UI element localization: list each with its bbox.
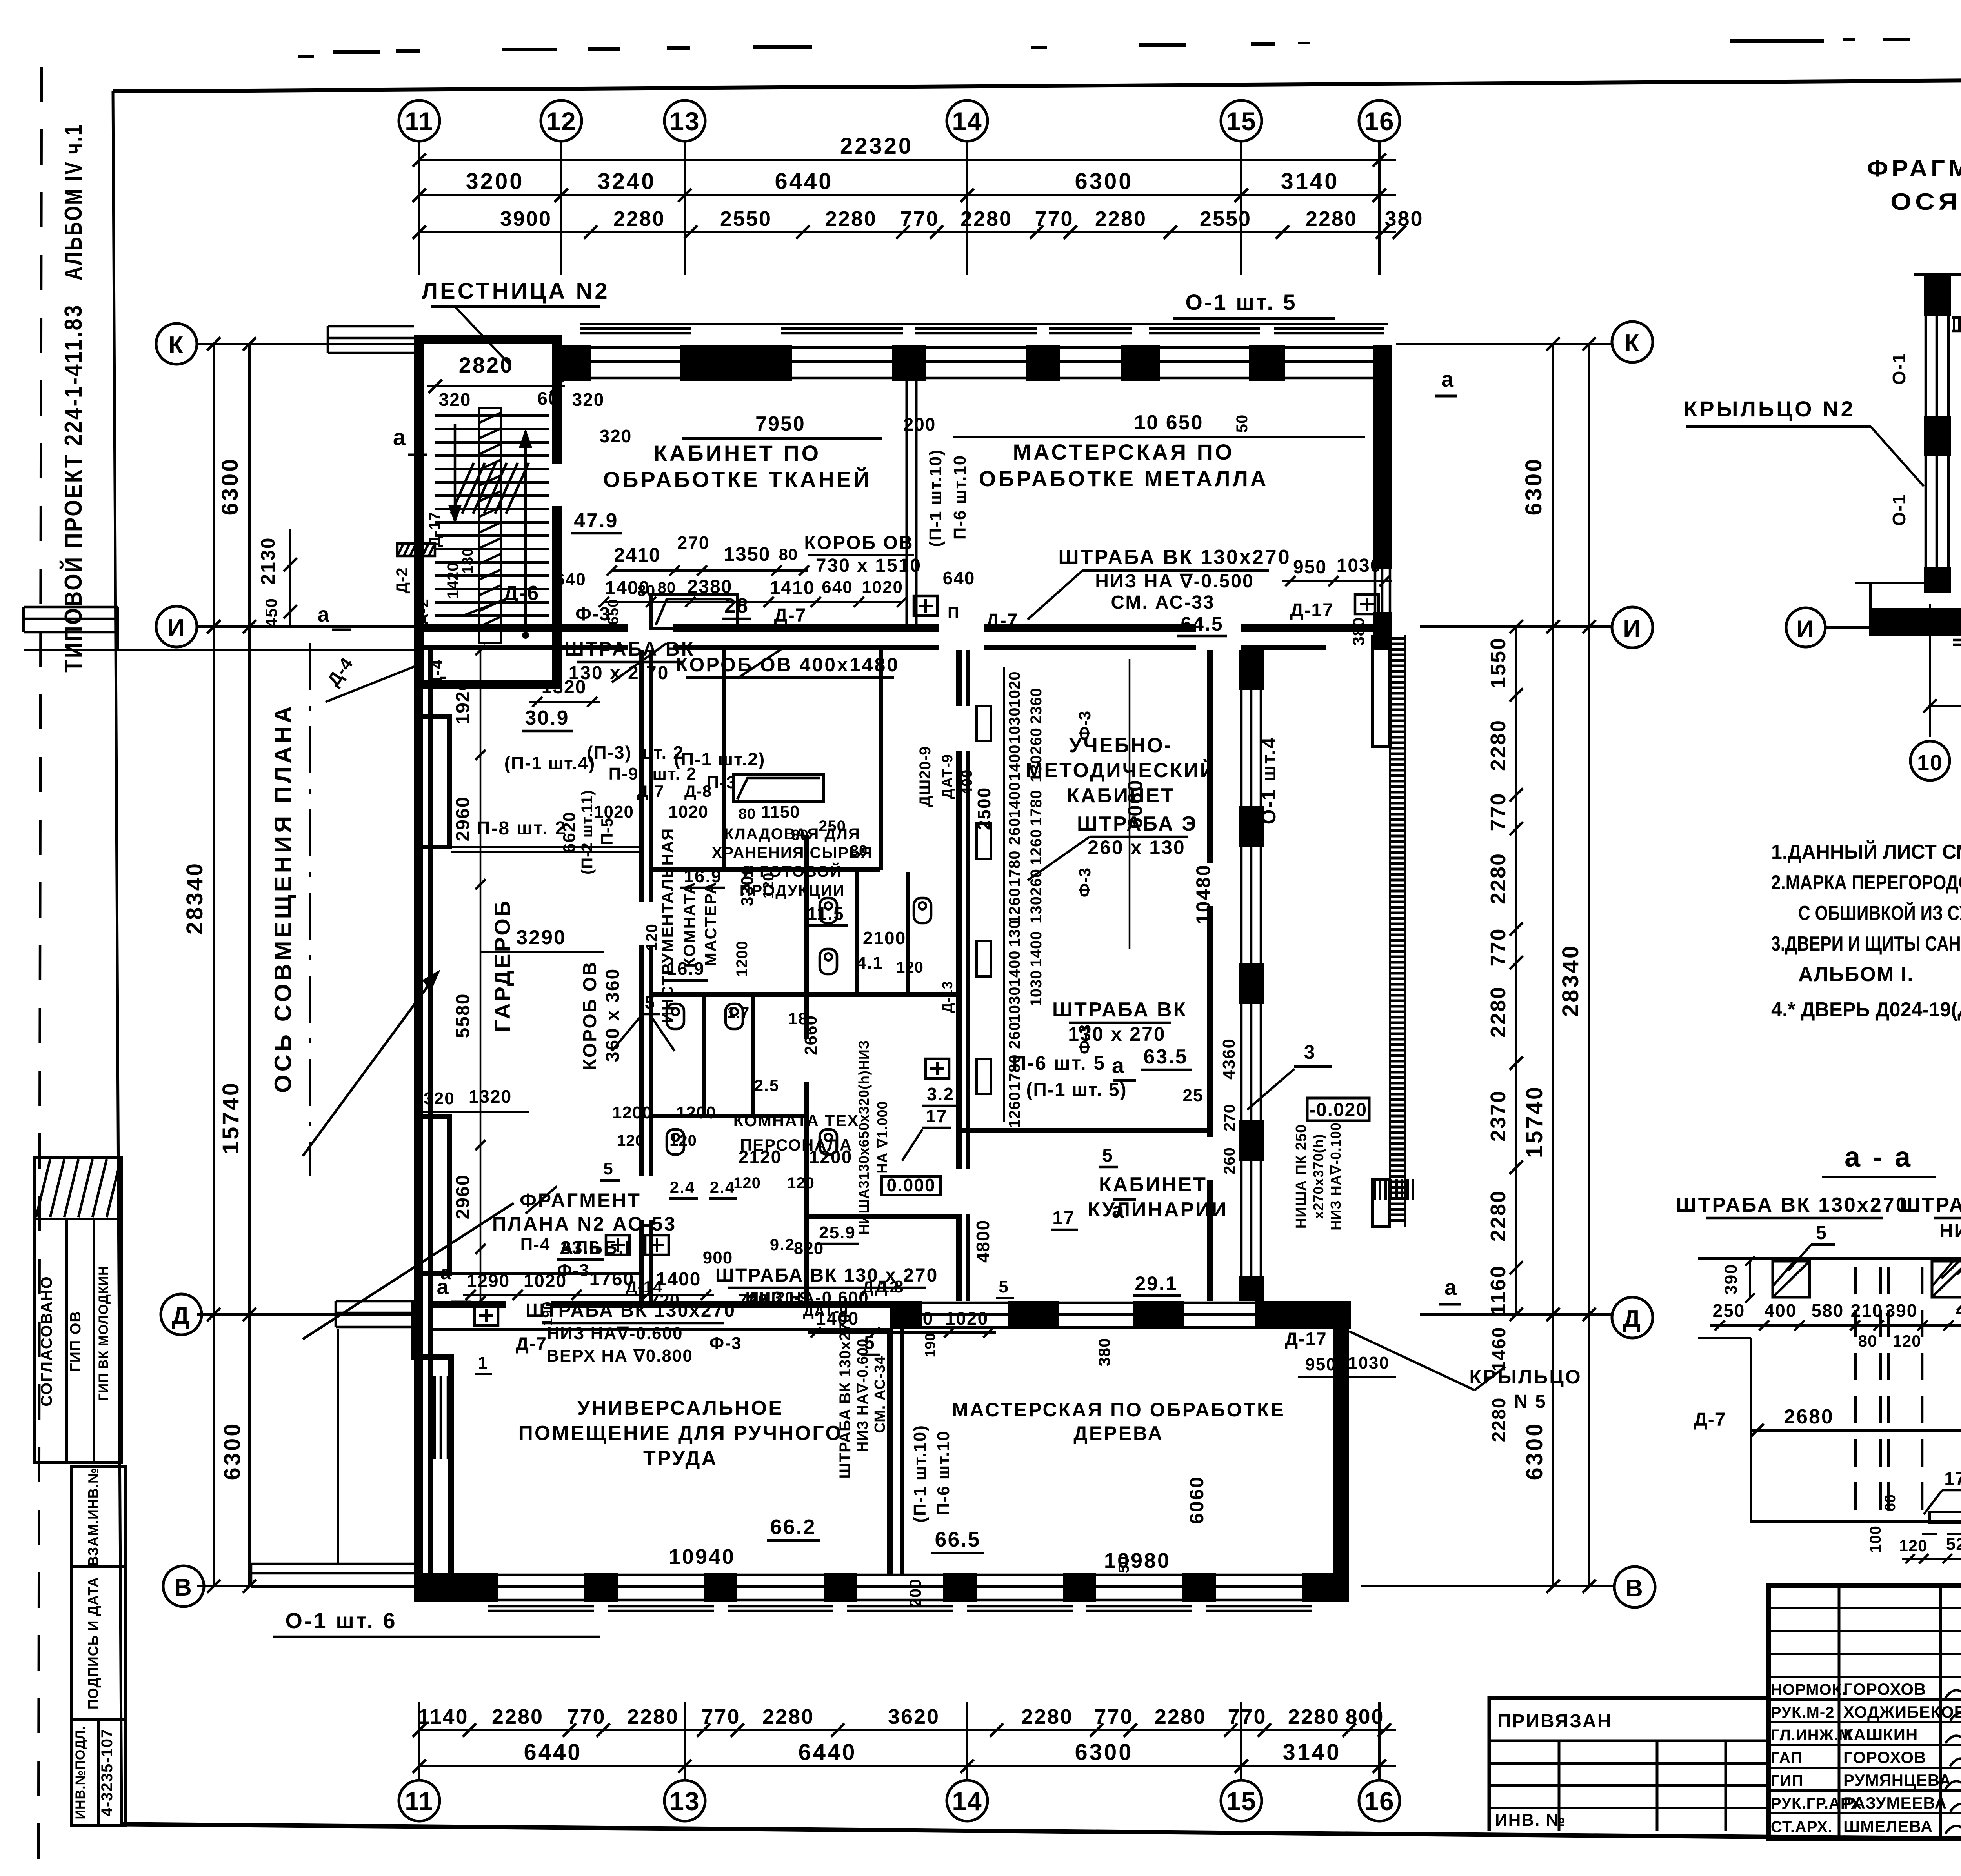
- svg-text:770: 770: [1486, 792, 1510, 831]
- svg-text:ГОРОХОВ: ГОРОХОВ: [1843, 1680, 1926, 1698]
- svg-text:130: 130: [1028, 755, 1045, 782]
- svg-text:1260: 1260: [1006, 1092, 1023, 1128]
- svg-text:6300: 6300: [220, 1422, 245, 1480]
- axis circles bottom row: [399, 1780, 440, 1821]
- svg-text:120: 120: [760, 873, 777, 898]
- svg-text:10480: 10480: [1192, 864, 1214, 924]
- section top line: [1698, 1257, 1961, 1260]
- svg-text:Д-7: Д-7: [516, 1333, 547, 1354]
- bottom dim line detailed: [419, 1729, 1396, 1731]
- svg-text:N 5: N 5: [1514, 1391, 1547, 1412]
- axis horizontal lines left: [197, 343, 414, 345]
- section niche left: [1773, 1261, 1810, 1297]
- svg-text:15740: 15740: [1522, 1085, 1547, 1158]
- svg-text:380: 380: [1349, 617, 1368, 645]
- right dim 6300 upper: [1552, 344, 1554, 627]
- partition between manual-labor room and wood workshop: [887, 1329, 893, 1576]
- svg-text:2280: 2280: [1486, 853, 1510, 904]
- porch left at И: [24, 606, 118, 609]
- svg-text:640: 640: [943, 568, 975, 588]
- svg-text:270: 270: [677, 533, 710, 553]
- svg-text:770: 770: [701, 1705, 740, 1729]
- svg-text:ТРУДА: ТРУДА: [643, 1447, 718, 1470]
- svg-text:3900: 3900: [500, 207, 552, 231]
- south exterior wall piers (В axis): [414, 1573, 498, 1602]
- svg-text:360 х 360: 360 х 360: [602, 968, 623, 1062]
- svg-text:НОРМОК.: НОРМОК.: [1771, 1681, 1846, 1698]
- svg-text:1410: 1410: [770, 578, 815, 598]
- svg-text:ИНВ.№ПОДЛ.: ИНВ.№ПОДЛ.: [73, 1726, 88, 1820]
- stair stringer: [479, 408, 501, 643]
- section left wall edge: [1750, 1338, 1752, 1523]
- svg-text:60: 60: [1882, 1494, 1899, 1511]
- svg-text:КАБИНЕТ: КАБИНЕТ: [1099, 1173, 1207, 1196]
- svg-text:770: 770: [1486, 927, 1510, 966]
- svg-text:1200: 1200: [676, 1103, 716, 1122]
- svg-text:770: 770: [1228, 1705, 1266, 1729]
- svg-text:6440: 6440: [775, 169, 833, 194]
- privyazan table: [1489, 1698, 1769, 1831]
- svg-text:КРЫЛЬЦО: КРЫЛЬЦО: [1469, 1366, 1582, 1388]
- svg-text:80: 80: [850, 843, 868, 859]
- svg-text:2960: 2960: [453, 796, 473, 842]
- svg-text:2.5: 2.5: [754, 1076, 779, 1094]
- svg-text:1020: 1020: [668, 802, 708, 822]
- svg-text:5: 5: [1102, 1145, 1114, 1166]
- svg-text:250: 250: [1713, 1300, 1745, 1321]
- svg-text:П-8 шт. 2: П-8 шт. 2: [477, 818, 567, 839]
- svg-text:4.1: 4.1: [857, 953, 883, 973]
- svg-text:2280: 2280: [1288, 1705, 1340, 1729]
- left dim vertical line outer 28340: [213, 344, 215, 1586]
- svg-text:1400: 1400: [1006, 745, 1023, 781]
- partition low: [653, 1114, 806, 1118]
- svg-text:(П-2 шт.11): (П-2 шт.11): [578, 790, 596, 874]
- svg-text:22320: 22320: [840, 133, 913, 159]
- axis circles top row: [399, 100, 440, 141]
- svg-text:63.5: 63.5: [1143, 1045, 1188, 1068]
- svg-text:320: 320: [572, 389, 605, 410]
- svg-text:120: 120: [1899, 1536, 1927, 1555]
- svg-text:НИЗ НА∇-0.600: НИЗ НА∇-0.600: [547, 1324, 683, 1343]
- east wall of metal workshop: [1373, 381, 1392, 569]
- svg-text:а: а: [1444, 1275, 1458, 1300]
- fragment left wall piers: [1924, 286, 1951, 316]
- svg-text:1200: 1200: [612, 1103, 652, 1122]
- svg-text:380: 380: [1384, 207, 1423, 231]
- svg-text:4800: 4800: [973, 1220, 993, 1263]
- bottom dim line axis spans: [419, 1765, 1396, 1767]
- svg-text:1290: 1290: [890, 1308, 933, 1329]
- svg-text:770: 770: [1094, 1705, 1133, 1729]
- svg-text:ПОМЕЩЕНИЕ ДЛЯ РУЧНОГО: ПОМЕЩЕНИЕ ДЛЯ РУЧНОГО: [518, 1422, 842, 1445]
- bottom wing north windows: [922, 1302, 1008, 1304]
- svg-text:ИНВ. №: ИНВ. №: [1495, 1811, 1566, 1830]
- axis circle И left: [156, 606, 197, 647]
- svg-text:ОСЯХ „10-11”.: ОСЯХ „10-11”.: [1890, 189, 1961, 215]
- svg-text:НИЗ НА ∇-0.500: НИЗ НА ∇-0.500: [1095, 571, 1254, 592]
- svg-text:10 650: 10 650: [1134, 411, 1203, 434]
- fragment dim 5700: [1930, 705, 1961, 707]
- svg-text:ФРАГМЕНТ ПЛАНА В: ФРАГМЕНТ ПЛАНА В: [1867, 155, 1961, 182]
- svg-text:ШТРАБА ВК 130х390: ШТРАБА ВК 130х390: [1899, 1194, 1961, 1216]
- svg-text:(П-3) шт. 2: (П-3) шт. 2: [587, 742, 684, 763]
- svg-text:ОБРАБОТКЕ ТКАНЕЙ: ОБРАБОТКЕ ТКАНЕЙ: [603, 467, 872, 492]
- door Д-17 threshold hatched (stair): [397, 544, 435, 556]
- svg-text:2.4: 2.4: [670, 1178, 695, 1196]
- fragment axis 10 line: [1929, 604, 1931, 737]
- svg-text:ЛЕСТНИЦА N2: ЛЕСТНИЦА N2: [422, 278, 609, 304]
- svg-text:К: К: [169, 332, 185, 359]
- svg-text:100: 100: [1867, 1525, 1884, 1553]
- svg-text:1200: 1200: [809, 1147, 852, 1167]
- svg-text:МЕТОДИЧЕСКИЙ: МЕТОДИЧЕСКИЙ: [1026, 759, 1216, 782]
- svg-text:Ф-3: Ф-3: [709, 1334, 742, 1353]
- svg-text:6300: 6300: [1522, 1422, 1547, 1480]
- svg-text:250: 250: [819, 818, 846, 835]
- svg-text:270: 270: [1221, 1104, 1238, 1131]
- svg-text:16: 16: [1364, 107, 1394, 136]
- east wall windows O-1: [1240, 690, 1243, 806]
- svg-text:ШТРАБА ВК 130х270: ШТРАБА ВК 130х270: [837, 1313, 854, 1478]
- svg-text:130 х 2.70: 130 х 2.70: [569, 663, 669, 684]
- svg-text:КРЫЛЬЦО N2: КРЫЛЬЦО N2: [1684, 396, 1855, 421]
- svg-text:2280: 2280: [613, 207, 665, 231]
- svg-text:320: 320: [453, 1583, 484, 1602]
- svg-text:190: 190: [1016, 1300, 1032, 1325]
- svg-text:ХРАНЕНИЯ СЫРЬЯ: ХРАНЕНИЯ СЫРЬЯ: [712, 844, 873, 862]
- level mark -0.020: [1307, 1098, 1369, 1121]
- svg-text:11: 11: [405, 1787, 434, 1816]
- sinks with cross: [606, 1235, 629, 1255]
- svg-text:П-5: П-5: [598, 818, 616, 845]
- svg-text:2280: 2280: [1155, 1705, 1206, 1729]
- svg-text:6060: 6060: [1186, 1476, 1208, 1524]
- storage room partition: [879, 650, 883, 870]
- svg-text:П: П: [948, 604, 960, 621]
- svg-text:260: 260: [1028, 727, 1045, 755]
- svg-text:66.2: 66.2: [770, 1515, 816, 1539]
- left dim small 2130 450: [289, 529, 291, 627]
- svg-text:2820: 2820: [459, 353, 514, 377]
- svg-text:380: 380: [1095, 1338, 1113, 1366]
- level mark 0.000: [882, 1176, 940, 1195]
- east wall window К-И: [1374, 569, 1377, 612]
- svg-text:2280: 2280: [825, 207, 877, 231]
- svg-text:11: 11: [405, 107, 434, 136]
- svg-text:2960: 2960: [453, 1174, 473, 1220]
- svg-text:6300: 6300: [1075, 1740, 1133, 1765]
- svg-text:1400: 1400: [1028, 931, 1045, 967]
- top dim line axis spans: [419, 194, 1396, 196]
- svg-text:1780: 1780: [1028, 790, 1045, 826]
- scanner noise dashes top: [333, 50, 380, 54]
- svg-text:390: 390: [1885, 1300, 1918, 1321]
- svg-text:АЛЬБ.I: АЛЬБ.I: [560, 1238, 631, 1258]
- korob rect in plan: [651, 594, 737, 628]
- svg-text:ШТРАБА ВК: ШТРАБА ВК: [1052, 998, 1187, 1021]
- svg-text:1920: 1920: [453, 680, 473, 725]
- svg-text:1020: 1020: [862, 578, 903, 597]
- svg-text:П-6 шт.10: П-6 шт.10: [950, 455, 970, 540]
- svg-text:П-9: П-9: [609, 764, 639, 783]
- svg-text:2660: 2660: [801, 1015, 820, 1055]
- window in west wall of manual labor room: [433, 1376, 449, 1459]
- svg-text:1030: 1030: [1028, 970, 1045, 1007]
- stair block walls: [414, 335, 424, 689]
- svg-text:1260: 1260: [1006, 888, 1023, 924]
- svg-text:3: 3: [1304, 1041, 1316, 1063]
- svg-text:ШТРАБА ВК 130 х 270: ШТРАБА ВК 130 х 270: [715, 1265, 939, 1286]
- svg-text:130: 130: [1028, 896, 1045, 923]
- svg-text:770: 770: [900, 207, 939, 231]
- И axis wall lower line: [414, 645, 628, 650]
- svg-text:Ф-3: Ф-3: [1075, 867, 1094, 897]
- svg-text:80: 80: [779, 545, 798, 564]
- svg-text:950: 950: [1305, 1355, 1336, 1374]
- svg-text:ШТРАБА ВК 130х270: ШТРАБА ВК 130х270: [526, 1300, 736, 1321]
- section niche right: [1932, 1261, 1961, 1297]
- svg-text:РАЗУМЕЕВА: РАЗУМЕЕВА: [1843, 1794, 1947, 1812]
- svg-text:Д-13: Д-13: [939, 981, 955, 1013]
- corridor wall segment lower: [1207, 1220, 1213, 1301]
- svg-text:1320: 1320: [469, 1086, 512, 1107]
- svg-text:П-6 шт. 5: П-6 шт. 5: [1012, 1052, 1106, 1074]
- svg-text:а: а: [393, 425, 406, 450]
- fragment porch hatched band: [1952, 316, 1961, 319]
- svg-text:Д-8: Д-8: [875, 1277, 904, 1296]
- svg-text:Ф-3: Ф-3: [1075, 711, 1094, 740]
- svg-text:И ГОТОВОЙ: И ГОТОВОЙ: [742, 862, 842, 880]
- svg-text:80: 80: [791, 827, 809, 843]
- svg-text:КАБИНЕТ ПО: КАБИНЕТ ПО: [654, 441, 821, 465]
- svg-text:1: 1: [478, 1353, 488, 1372]
- svg-text:580: 580: [1812, 1300, 1844, 1321]
- svg-text:КОМНАТА ТЕХ: КОМНАТА ТЕХ: [733, 1111, 859, 1130]
- svg-text:х270х370(h): х270х370(h): [1310, 1134, 1326, 1219]
- svg-text:МАСТЕРСКАЯ ПО ОБРАБОТКЕ: МАСТЕРСКАЯ ПО ОБРАБОТКЕ: [952, 1399, 1285, 1421]
- fragment left wall windows O-1: [1925, 316, 1927, 416]
- svg-text:2280: 2280: [1306, 207, 1357, 231]
- svg-text:2.4: 2.4: [710, 1178, 735, 1196]
- svg-text:Д-7: Д-7: [1694, 1409, 1726, 1430]
- signatures squiggles: [1945, 1685, 1961, 1698]
- svg-text:5: 5: [864, 1332, 876, 1353]
- svg-text:И: И: [1797, 616, 1815, 642]
- east wall of bottom wing: [1333, 1329, 1349, 1577]
- svg-text:П-4: П-4: [520, 1235, 551, 1254]
- section dim 2680: [1751, 1429, 1961, 1432]
- svg-text:640: 640: [822, 578, 853, 597]
- svg-text:130 х 270: 130 х 270: [1068, 1023, 1166, 1045]
- svg-text:650: 650: [605, 599, 622, 625]
- svg-text:ВЕРХ НА ∇0.800: ВЕРХ НА ∇0.800: [546, 1346, 693, 1365]
- svg-text:5: 5: [999, 1277, 1009, 1296]
- ladder band bottom segment: [1372, 1179, 1390, 1226]
- svg-text:6440: 6440: [798, 1740, 857, 1765]
- svg-text:1780: 1780: [1006, 851, 1023, 887]
- svg-text:Д: Д: [172, 1302, 190, 1329]
- svg-text:ТИПОВОЙ ПРОЕКТ 224-1-411.83: ТИПОВОЙ ПРОЕКТ 224-1-411.83: [60, 304, 87, 673]
- svg-text:1140: 1140: [418, 1705, 468, 1729]
- svg-text:2360: 2360: [1028, 688, 1045, 724]
- svg-text:1260: 1260: [1028, 829, 1045, 865]
- svg-text:ВЗАМ.ИНВ.№: ВЗАМ.ИНВ.№: [85, 1467, 101, 1566]
- fragment И wall piers: [1870, 608, 1961, 636]
- svg-text:1.ДАННЫЙ ЛИСТ СМ. СОВМЕСТНО: 1.ДАННЫЙ ЛИСТ СМ. СОВМЕСТНО С ЛИСТАМИ ЯС…: [1771, 840, 1961, 863]
- section floor line: [1751, 1520, 1961, 1523]
- svg-text:КОРОБ ОВ: КОРОБ ОВ: [804, 533, 913, 553]
- partition low2: [809, 1214, 962, 1219]
- svg-text:14: 14: [952, 1787, 982, 1816]
- svg-text:30.9: 30.9: [525, 707, 569, 729]
- svg-text:ИНСТРУМЕНТАЛЬНАЯ: ИНСТРУМЕНТАЛЬНАЯ: [658, 828, 677, 1023]
- wardrobe counter lower: [451, 1272, 639, 1275]
- svg-text:2280: 2280: [762, 1705, 814, 1729]
- svg-text:Д-4: Д-4: [427, 659, 446, 689]
- Д axis wall (left part): [428, 1301, 506, 1308]
- scanner noise small marks: [298, 55, 314, 58]
- svg-text:ДШ20-9: ДШ20-9: [917, 746, 934, 807]
- svg-text:Д-2: Д-2: [393, 567, 411, 593]
- svg-text:770: 770: [1035, 207, 1073, 231]
- svg-text:400: 400: [1765, 1300, 1797, 1321]
- svg-text:ШТРАБА Э: ШТРАБА Э: [1077, 813, 1198, 835]
- long leader arrow to plan lower: [303, 1203, 514, 1339]
- svg-text:28: 28: [724, 594, 749, 617]
- svg-text:В: В: [1625, 1575, 1644, 1602]
- svg-text:6300: 6300: [1521, 457, 1546, 515]
- svg-text:1200: 1200: [733, 941, 751, 977]
- sheet frame left border: [113, 91, 122, 1824]
- svg-text:17: 17: [1052, 1208, 1075, 1229]
- fragment top-left wall stub: [1924, 274, 1951, 286]
- svg-text:1420: 1420: [444, 562, 462, 599]
- svg-text:(П-1 шт. 5): (П-1 шт. 5): [1026, 1080, 1127, 1100]
- svg-text:120: 120: [733, 1174, 761, 1192]
- bottom wing north wall (wood workshop): [890, 1301, 922, 1329]
- title block personnel rows: [1769, 1698, 1961, 1701]
- svg-text:И: И: [167, 614, 186, 642]
- east wall with windows O-1 (study block): [1239, 650, 1264, 690]
- left dim vertical line inner: [248, 344, 251, 1586]
- ось совмещения line: [309, 643, 311, 1176]
- svg-text:2.МАРКА ПЕРЕГОРОДОК В СКОБКАХ: 2.МАРКА ПЕРЕГОРОДОК В СКОБКАХ ДАНА ДЛЯ В…: [1771, 871, 1961, 894]
- svg-text:(П-1 шт.2): (П-1 шт.2): [674, 749, 766, 769]
- svg-text:16.9: 16.9: [666, 958, 705, 979]
- svg-text:25.9: 25.9: [819, 1223, 856, 1242]
- svg-text:НИЗ НА-1.100: НИЗ НА-1.100: [1939, 1221, 1961, 1242]
- svg-text:1030: 1030: [1348, 1353, 1390, 1372]
- instrument room partition: [722, 650, 726, 870]
- axis circle В right: [1614, 1567, 1655, 1607]
- svg-text:4-3235-107: 4-3235-107: [98, 1729, 116, 1817]
- svg-text:200: 200: [906, 1578, 924, 1607]
- svg-text:1030: 1030: [1006, 707, 1023, 744]
- svg-text:2550: 2550: [720, 207, 772, 231]
- svg-text:10940: 10940: [669, 1545, 735, 1569]
- svg-text:НИША3130х650х320(h)НИЗ: НИША3130х650х320(h)НИЗ: [856, 1040, 872, 1235]
- svg-text:2280: 2280: [492, 1705, 544, 1729]
- svg-text:2280: 2280: [1486, 1190, 1510, 1242]
- stair arrow up: [454, 424, 457, 522]
- long leader arrow to plan upper: [303, 972, 438, 1156]
- top wall windows: [591, 346, 680, 349]
- svg-text:5: 5: [1816, 1223, 1828, 1243]
- svg-text:1.7: 1.7: [727, 1004, 750, 1022]
- porch left at Д: [336, 1300, 414, 1303]
- svg-text:3.ДВЕРИ И ЩИТЫ САНУЗЛОВ ЗАМ: 3.ДВЕРИ И ЩИТЫ САНУЗЛОВ ЗАМАРКИРОВАНЫ НА…: [1771, 933, 1961, 955]
- svg-text:2280: 2280: [1486, 719, 1510, 771]
- svg-text:ОБРАБОТКЕ МЕТАЛЛА: ОБРАБОТКЕ МЕТАЛЛА: [979, 466, 1269, 491]
- porch side line down from Д: [337, 1329, 339, 1563]
- svg-text:200: 200: [904, 414, 936, 434]
- axis circle В left: [163, 1566, 204, 1607]
- svg-text:АЛЬБОМ I.: АЛЬБОМ I.: [1798, 963, 1914, 986]
- right dim 6300 lower: [1552, 1314, 1554, 1586]
- svg-text:О-1 шт. 5: О-1 шт. 5: [1185, 290, 1297, 314]
- svg-text:29.1: 29.1: [1135, 1272, 1177, 1294]
- svg-text:МАСТЕРСКАЯ ПО: МАСТЕРСКАЯ ПО: [1013, 440, 1235, 464]
- svg-text:КАБИНЕТ: КАБИНЕТ: [1067, 784, 1175, 807]
- fragment axis И line: [1825, 626, 1961, 629]
- svg-text:ГИП ОВ: ГИП ОВ: [67, 1311, 84, 1372]
- svg-text:ГИП ВК МОЛОДКИН: ГИП ВК МОЛОДКИН: [96, 1265, 111, 1401]
- right dim overall 28340: [1588, 344, 1590, 1586]
- svg-text:640: 640: [555, 570, 586, 589]
- svg-text:120: 120: [643, 923, 660, 951]
- wardrobe right partition: [639, 650, 644, 1301]
- svg-text:-0.020: -0.020: [1309, 1100, 1367, 1120]
- svg-text:1290: 1290: [467, 1271, 510, 1291]
- svg-text:Д-7: Д-7: [774, 605, 807, 626]
- svg-text:800: 800: [1345, 1705, 1384, 1729]
- svg-text:(П-1 шт.10): (П-1 шт.10): [926, 449, 945, 547]
- svg-text:2100: 2100: [863, 928, 906, 948]
- title block left thin rows: [1769, 1607, 1961, 1609]
- svg-text:Д-6: Д-6: [504, 582, 540, 605]
- partition between top rooms: [906, 380, 908, 624]
- svg-text:80: 80: [1858, 1332, 1877, 1350]
- svg-text:КОРОБ ОВ: КОРОБ ОВ: [580, 961, 600, 1070]
- svg-text:16.9: 16.9: [684, 866, 722, 886]
- svg-text:а - а: а - а: [1845, 1142, 1913, 1173]
- svg-text:120: 120: [787, 1174, 815, 1192]
- svg-text:ГОРОХОВ: ГОРОХОВ: [1843, 1748, 1926, 1767]
- svg-text:2280: 2280: [1021, 1705, 1073, 1729]
- main vertical wall (study block west): [956, 650, 962, 1301]
- svg-text:260: 260: [1221, 1147, 1238, 1174]
- svg-text:ШТРАБА ВК: ШТРАБА ВК: [564, 638, 695, 660]
- axis circle Д left: [161, 1294, 202, 1335]
- svg-text:25: 25: [1183, 1086, 1204, 1105]
- section elevation 3.000: [1957, 1263, 1961, 1274]
- svg-text:ШМЕЛЕВА: ШМЕЛЕВА: [1843, 1817, 1933, 1836]
- svg-text:10980: 10980: [1104, 1549, 1171, 1572]
- svg-text:64.5: 64.5: [1181, 613, 1223, 635]
- svg-text:320: 320: [439, 389, 471, 410]
- svg-text:а: а: [1112, 1053, 1125, 1078]
- svg-text:190: 190: [539, 1301, 555, 1326]
- axis circle K left: [156, 324, 197, 364]
- svg-text:4.* ДВЕРЬ Д024-19(Д-4) ЗАМЕ: 4.* ДВЕРЬ Д024-19(Д-4) ЗАМЕНИТЬ НА ДВЕ Д…: [1771, 998, 1961, 1021]
- fragment axis И circle left: [1786, 608, 1825, 647]
- svg-text:17: 17: [926, 1106, 947, 1126]
- top dim line overall 22320: [419, 159, 1396, 161]
- svg-text:1150: 1150: [761, 802, 800, 822]
- svg-text:3140: 3140: [1281, 169, 1339, 194]
- svg-text:80: 80: [739, 806, 756, 822]
